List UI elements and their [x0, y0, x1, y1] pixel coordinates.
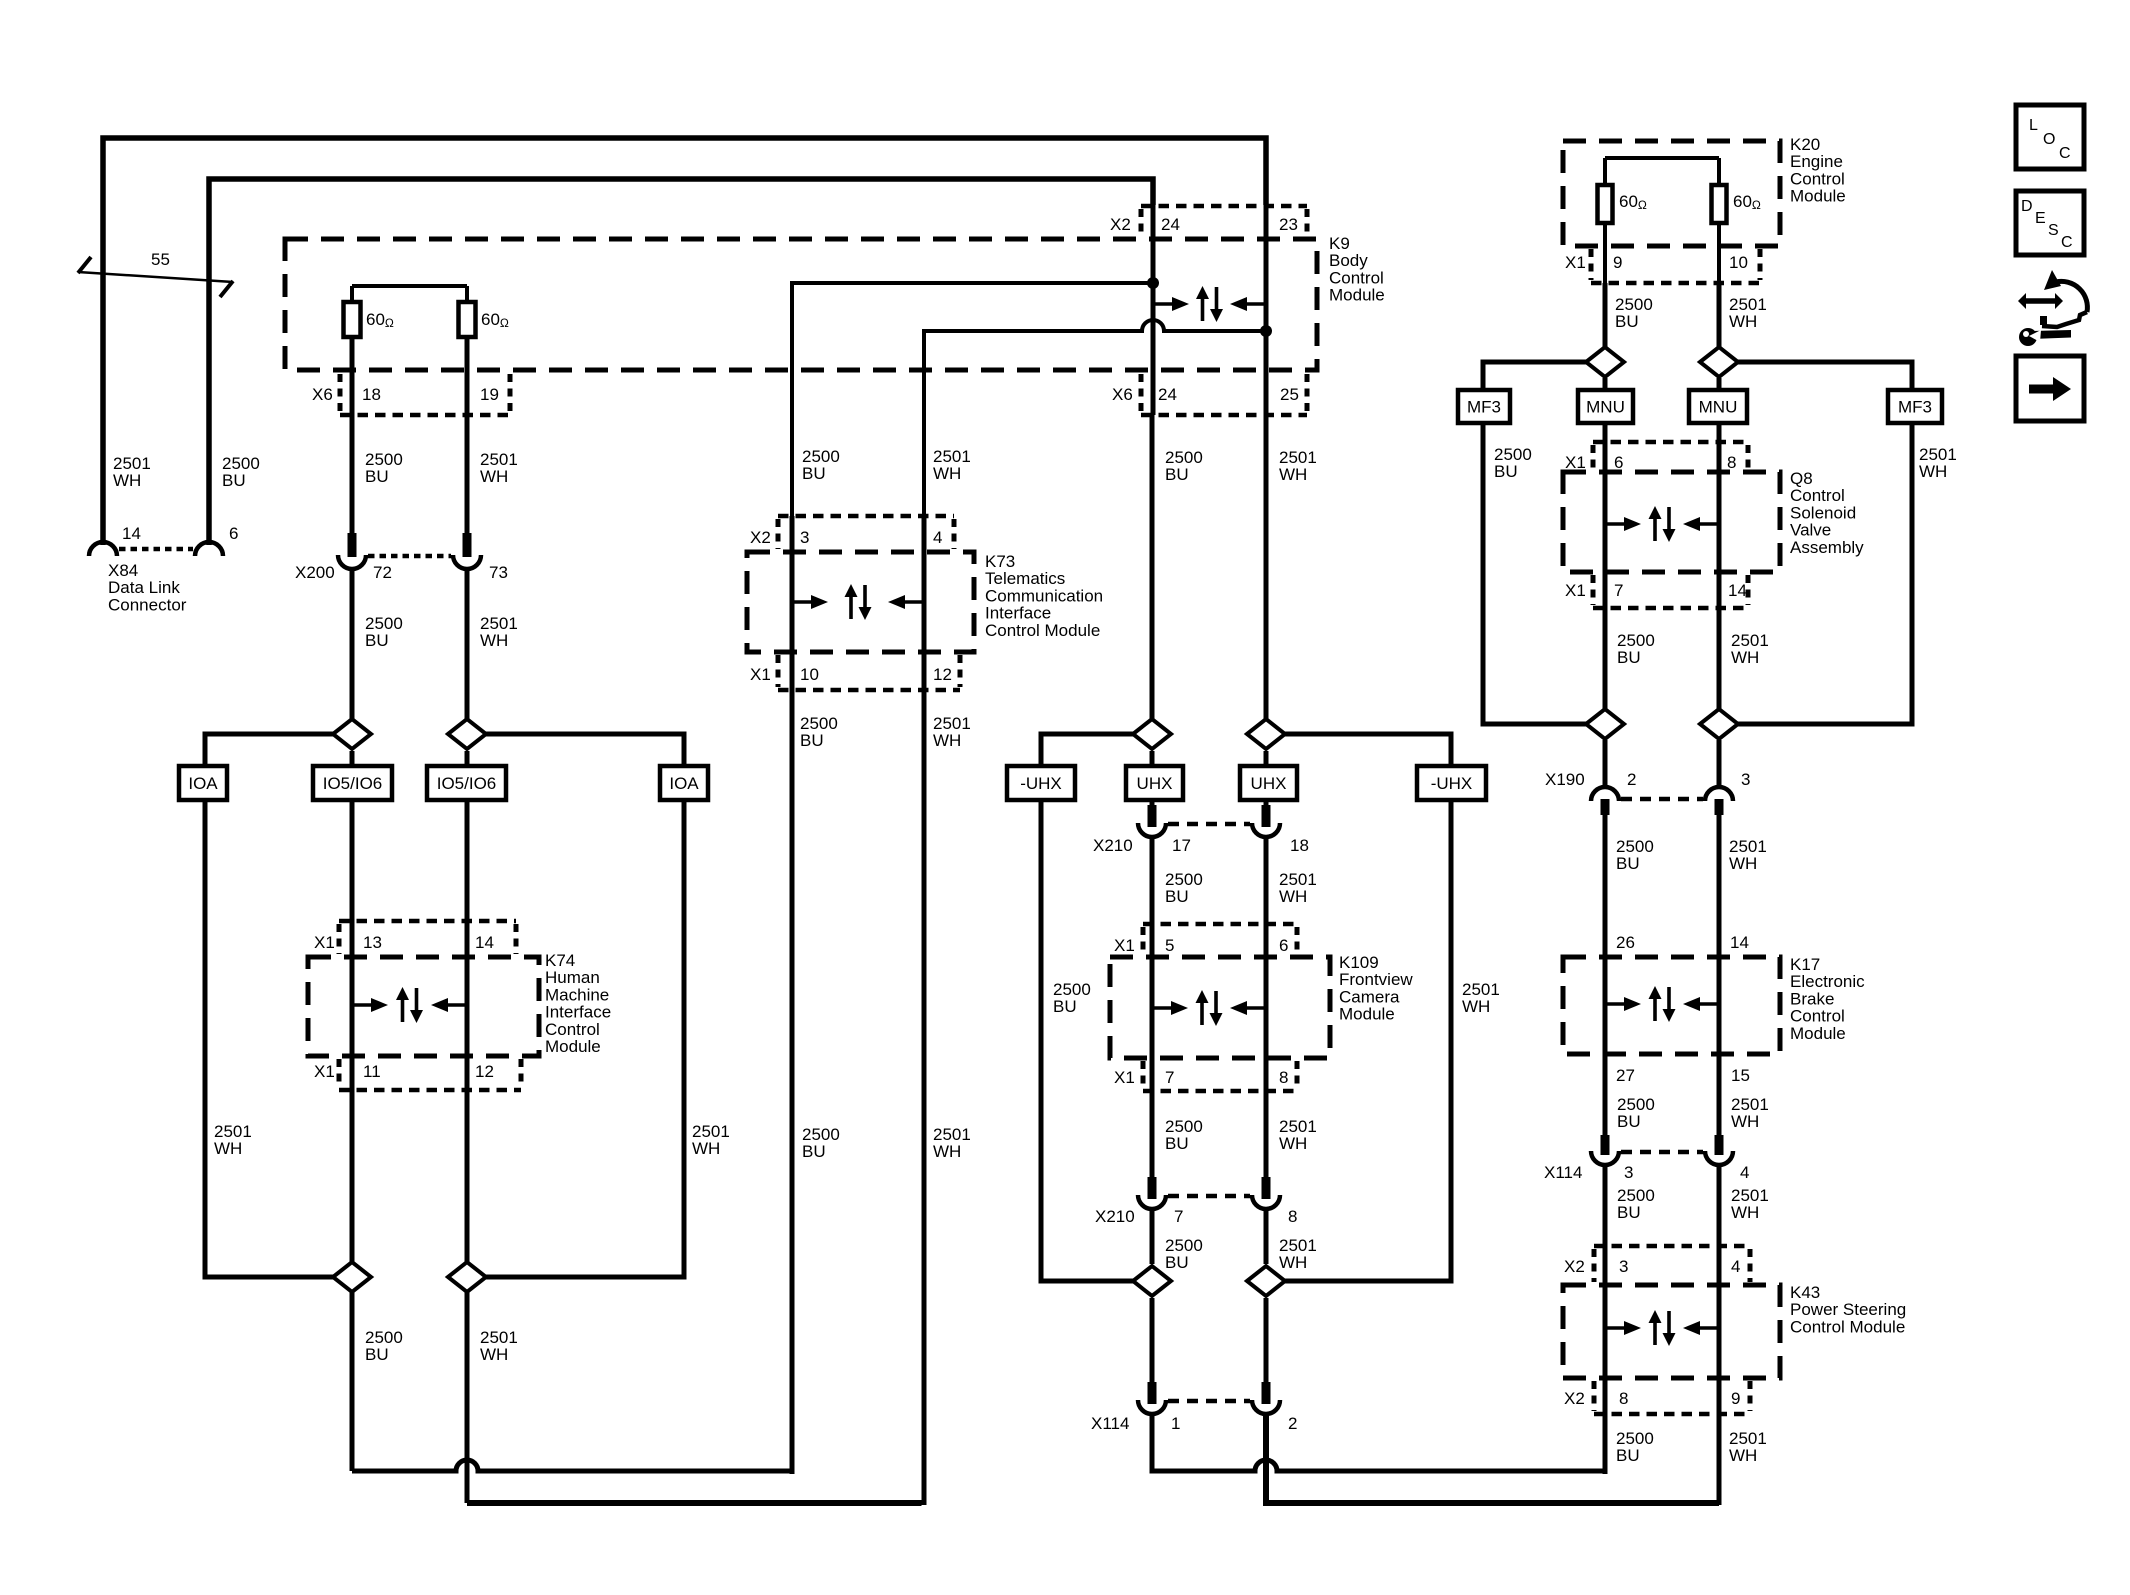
wire X114-4 to K43 X2-4: [1717, 1167, 1722, 1285]
transceiver symbol Q8: [1605, 522, 1625, 526]
connector pin box K74 X1 bottom: [339, 1088, 521, 1093]
option box IO5/IO6 left: [313, 766, 392, 800]
svg-text:Control: Control: [545, 1020, 600, 1039]
wire Q8 X1-7 to lower diamond: [1603, 473, 1608, 709]
svg-text:Interface: Interface: [985, 604, 1051, 623]
svg-text:Module: Module: [1790, 187, 1846, 206]
wire node link K9 CAN low to K73 X2-4 (hop over BU wire): [924, 320, 1266, 516]
connector X190 pin 3: [1705, 787, 1733, 801]
connector pin box K109 X1 top: [1143, 922, 1297, 927]
svg-text:2: 2: [1288, 1414, 1297, 1433]
wire 2500 BU K20 X1-9 to diamond: [1603, 283, 1608, 347]
svg-text:WH: WH: [1731, 1203, 1759, 1222]
svg-text:WH: WH: [1279, 887, 1307, 906]
wire resistor legs K20 to X1 box: [1603, 223, 1607, 283]
wire UHX left to X210-17: [1150, 751, 1155, 805]
module K109 Frontview Camera Module box: [1110, 957, 1330, 1058]
module K20 Engine Control Module box: [1563, 141, 1780, 246]
connector X114 pin 4: [1715, 1135, 1724, 1155]
wire K9 resistor branch 2501 WH X6-19 down to X200 pin 73: [465, 337, 470, 533]
svg-text:2501: 2501: [1729, 837, 1767, 856]
svg-text:WH: WH: [480, 631, 508, 650]
wire X114-2 down and bottom trunk 2501 WH right segment: [1266, 1414, 1719, 1503]
wire MF3 right down to lower diamond row: [1738, 423, 1912, 724]
svg-text:O: O: [2043, 131, 2055, 148]
splice diamond WH left: [448, 719, 486, 749]
svg-text:WH: WH: [1919, 462, 1947, 481]
svg-text:K20: K20: [1790, 135, 1820, 154]
svg-text:Solenoid: Solenoid: [1790, 503, 1856, 522]
svg-text:WH: WH: [933, 731, 961, 750]
splice diamond BU bottom left: [333, 1262, 371, 1292]
resistor 60 ohm K20 left: [1598, 185, 1613, 223]
connector pin box K73 X1: [778, 688, 960, 693]
svg-text:14: 14: [475, 933, 494, 952]
svg-text:BU: BU: [365, 1345, 389, 1364]
svg-text:X200: X200: [295, 563, 335, 582]
wire -UHX right down to bottom diamond row: [1285, 800, 1451, 1281]
svg-text:7: 7: [1165, 1068, 1174, 1087]
svg-text:X1: X1: [1114, 936, 1135, 955]
svg-text:WH: WH: [1731, 648, 1759, 667]
svg-text:MNU: MNU: [1699, 398, 1738, 417]
svg-text:L: L: [2029, 117, 2038, 134]
svg-text:7: 7: [1174, 1207, 1183, 1226]
connector pin box K73 X2: [778, 514, 954, 519]
svg-text:2501: 2501: [113, 454, 151, 473]
wire 2501 WH K73 X1-12 down to bottom trunk: [922, 516, 927, 1505]
svg-text:3: 3: [800, 528, 809, 547]
svg-text:2501: 2501: [1462, 980, 1500, 999]
wire branch to IOA right: [485, 734, 684, 766]
svg-text:7: 7: [1614, 581, 1623, 600]
svg-text:2501: 2501: [214, 1122, 252, 1141]
svg-text:WH: WH: [933, 464, 961, 483]
svg-text:2501: 2501: [1279, 448, 1317, 467]
splice diamond BU mid: [1133, 719, 1171, 749]
connector pin box K9 X2: [1141, 204, 1307, 209]
svg-text:Module: Module: [1329, 286, 1385, 305]
svg-text:WH: WH: [1729, 1446, 1757, 1465]
svg-text:6: 6: [1279, 936, 1288, 955]
wire K17 pin 15 to X114 pin 4: [1717, 1054, 1722, 1135]
wire lower diamond to X190 pin 2: [1603, 740, 1608, 788]
svg-text:Control: Control: [1790, 1007, 1845, 1026]
transceiver symbol K74: [352, 1003, 372, 1007]
svg-text:Telematics: Telematics: [985, 569, 1065, 588]
wire 2501 WH K20 X1-10 to diamond: [1717, 283, 1722, 347]
svg-text:60Ω: 60Ω: [366, 310, 394, 330]
svg-text:WH: WH: [1729, 312, 1757, 331]
wire X114-3 to K43 X2-3: [1603, 1167, 1608, 1285]
svg-text:BU: BU: [1617, 648, 1641, 667]
svg-text:2501: 2501: [1731, 1186, 1769, 1205]
svg-text:8: 8: [1619, 1389, 1628, 1408]
wire Q8 X1-14 to lower diamond: [1717, 473, 1722, 709]
svg-text:X210: X210: [1095, 1207, 1135, 1226]
svg-text:1: 1: [1171, 1414, 1180, 1433]
svg-text:2500: 2500: [1165, 1236, 1203, 1255]
junction dot K9 CAN high: [1147, 277, 1159, 289]
connector pin box K9 X6 left: [340, 413, 510, 418]
svg-text:2501: 2501: [1729, 1429, 1767, 1448]
transceiver symbol K43: [1605, 1326, 1625, 1330]
connector X210 dashed separation bottom: [1168, 1194, 1250, 1199]
svg-text:Module: Module: [1790, 1024, 1846, 1043]
splice diamond WH bottom mid: [1247, 1266, 1285, 1296]
svg-text:2500: 2500: [1165, 1117, 1203, 1136]
wire branch to IOA left: [205, 734, 334, 766]
svg-text:WH: WH: [480, 1345, 508, 1364]
svg-text:WH: WH: [1279, 465, 1307, 484]
module K74 Human Machine Interface Control Module box: [308, 957, 539, 1056]
svg-text:23: 23: [1279, 215, 1298, 234]
svg-text:K73: K73: [985, 552, 1015, 571]
option box MNU right: [1689, 390, 1747, 423]
svg-text:4: 4: [933, 528, 942, 547]
wire MNU right to Q8 X1-8: [1717, 378, 1722, 473]
svg-text:K43: K43: [1790, 1283, 1820, 1302]
svg-text:Control Module: Control Module: [1790, 1317, 1905, 1336]
circuit 55 annotation line: [78, 272, 233, 282]
wire bottom trunk 2500 BU left segment (hop over WH): [352, 1460, 790, 1471]
splice diamond WH bottom left: [448, 1262, 486, 1292]
connector X210 pin 7: [1148, 1177, 1157, 1199]
splice diamond BU bottom mid: [1133, 1266, 1171, 1296]
svg-text:Human: Human: [545, 968, 600, 987]
svg-text:2500: 2500: [1165, 870, 1203, 889]
connector X210 pin 17: [1148, 805, 1157, 827]
connector X200 pin 73 (bar and cup): [463, 533, 472, 557]
svg-text:60Ω: 60Ω: [1619, 192, 1647, 212]
connector pin box Q8 X1 top: [1593, 440, 1748, 445]
wire K43 X2-8 down to bottom trunk: [1603, 1285, 1608, 1474]
svg-text:14: 14: [1730, 933, 1749, 952]
svg-text:2500: 2500: [1617, 1095, 1655, 1114]
svg-text:Power Steering: Power Steering: [1790, 1300, 1906, 1319]
connector pin box K20 X1: [1591, 281, 1760, 286]
svg-text:9: 9: [1731, 1389, 1740, 1408]
svg-text:2500: 2500: [1053, 980, 1091, 999]
legend box LOC: [2016, 105, 2084, 169]
svg-text:3: 3: [1741, 770, 1750, 789]
svg-text:6: 6: [229, 524, 238, 543]
svg-text:C: C: [2059, 145, 2071, 162]
wire diamond to X114 pin 1: [1150, 1298, 1155, 1382]
module K43 Power Steering Control Module box: [1563, 1285, 1780, 1378]
connector pin box K109 X1 bottom: [1143, 1089, 1297, 1094]
connector X210 dashed separation top: [1168, 822, 1250, 827]
svg-text:BU: BU: [365, 631, 389, 650]
connector X114 pin 2: [1262, 1382, 1271, 1404]
wire IOA right down to bottom diamond row: [485, 800, 684, 1277]
svg-text:X6: X6: [312, 385, 333, 404]
svg-text:2501: 2501: [933, 714, 971, 733]
svg-text:19: 19: [480, 385, 499, 404]
svg-text:17: 17: [1172, 836, 1191, 855]
wire 2501 WH X200-73 to diamond: [465, 569, 470, 719]
svg-text:26: 26: [1616, 933, 1635, 952]
svg-text:D: D: [2021, 198, 2033, 215]
svg-text:2500: 2500: [1616, 1429, 1654, 1448]
svg-text:BU: BU: [1165, 465, 1189, 484]
svg-text:11: 11: [363, 1062, 381, 1081]
svg-text:X210: X210: [1093, 836, 1133, 855]
connector pin box Q8 X1 bottom: [1593, 606, 1748, 611]
option box -UHX right: [1417, 766, 1486, 800]
svg-text:2501: 2501: [933, 1125, 971, 1144]
resistor network K20: [1605, 156, 1719, 160]
svg-text:18: 18: [1290, 836, 1309, 855]
svg-text:BU: BU: [1616, 1446, 1640, 1465]
wire K9 resistor branch 2500 BU X6-18 down to X200 pin 72: [350, 337, 355, 533]
module K73 Telematics box: [747, 552, 974, 652]
svg-text:WH: WH: [113, 471, 141, 490]
svg-text:2500: 2500: [365, 1328, 403, 1347]
svg-text:WH: WH: [1731, 1112, 1759, 1131]
svg-text:Control: Control: [1790, 486, 1845, 505]
wire UHX right to X210-18: [1264, 751, 1269, 805]
svg-text:2501: 2501: [933, 447, 971, 466]
svg-text:BU: BU: [1165, 887, 1189, 906]
wire K43 X2-9 down to bottom trunk: [1717, 1285, 1722, 1505]
connector X190 pin 2: [1591, 787, 1619, 801]
svg-text:WH: WH: [1462, 997, 1490, 1016]
wire 2500 BU X210-7 to bottom diamond: [1150, 1211, 1155, 1264]
svg-text:K74: K74: [545, 951, 575, 970]
connector X200 dashed separation: [368, 554, 451, 559]
svg-text:24: 24: [1158, 385, 1177, 404]
svg-text:Machine: Machine: [545, 985, 609, 1004]
svg-text:X84: X84: [108, 561, 138, 580]
wire 2500 BU K9 X6-24 down to diamond: [1150, 415, 1155, 719]
connector pin box K43 X2 bottom: [1594, 1412, 1750, 1417]
svg-text:3: 3: [1624, 1163, 1633, 1182]
svg-text:2501: 2501: [1279, 1236, 1317, 1255]
transceiver symbol K9: [1153, 302, 1173, 306]
legend box next-page arrow: [2016, 356, 2084, 421]
connector pin box K43 X2 top: [1594, 1244, 1750, 1249]
svg-text:Frontview: Frontview: [1339, 970, 1413, 989]
svg-text:MNU: MNU: [1586, 398, 1625, 417]
svg-text:BU: BU: [1617, 1203, 1641, 1222]
svg-text:MF3: MF3: [1467, 398, 1501, 417]
wire X114-1 down and bottom trunk 2500 BU right segment (hop over WH): [1152, 1414, 1605, 1471]
svg-text:18: 18: [362, 385, 381, 404]
connector X114 pin 3: [1601, 1135, 1610, 1155]
option box -UHX left: [1007, 766, 1075, 800]
svg-text:BU: BU: [1165, 1253, 1189, 1272]
svg-text:8: 8: [1727, 453, 1736, 472]
svg-text:2501: 2501: [1731, 1095, 1769, 1114]
option box UHX left: [1126, 766, 1183, 800]
option box IOA left: [179, 766, 227, 800]
option box IOA right: [660, 766, 708, 800]
transceiver symbol K109: [1152, 1006, 1172, 1010]
svg-text:Module: Module: [545, 1037, 601, 1056]
wire bottom trunk 2501 WH left segment: [467, 1500, 922, 1506]
wire 2501 WH from X84 pin 14 to K9 X2-23 (top trunk): [103, 138, 1266, 545]
svg-text:X2: X2: [1110, 215, 1131, 234]
wire branch to MF3 right: [1738, 362, 1912, 390]
resistor 60 ohm K9 right: [459, 302, 476, 337]
svg-text:27: 27: [1616, 1066, 1635, 1085]
svg-text:IO5/IO6: IO5/IO6: [323, 774, 383, 793]
svg-text:2500: 2500: [1615, 295, 1653, 314]
connector pin box K74 X1 top: [339, 919, 516, 924]
svg-text:K17: K17: [1790, 955, 1820, 974]
svg-text:Assembly: Assembly: [1790, 538, 1864, 557]
svg-text:BU: BU: [1616, 854, 1640, 873]
svg-text:12: 12: [933, 665, 952, 684]
svg-text:WH: WH: [1279, 1134, 1307, 1153]
wire lower diamond to X190 pin 3: [1717, 740, 1722, 788]
svg-text:MF3: MF3: [1898, 398, 1932, 417]
svg-text:5: 5: [1165, 936, 1174, 955]
wire 2501 WH K9 X6-25 down to diamond: [1264, 415, 1269, 719]
svg-text:WH: WH: [1729, 854, 1757, 873]
svg-text:Engine: Engine: [1790, 152, 1843, 171]
svg-text:14: 14: [122, 524, 141, 543]
svg-text:-UHX: -UHX: [1431, 774, 1473, 793]
svg-text:K109: K109: [1339, 953, 1379, 972]
svg-text:4: 4: [1731, 1257, 1740, 1276]
legend icon vehicle data arrow and wrench: [2025, 298, 2056, 304]
splice diamond BU right top: [1586, 347, 1624, 377]
option box MF3 right: [1888, 390, 1942, 423]
svg-text:2500: 2500: [1165, 448, 1203, 467]
module Q8 Control Solenoid Valve Assembly box: [1563, 472, 1780, 572]
svg-text:2501: 2501: [1279, 870, 1317, 889]
svg-text:2501: 2501: [480, 614, 518, 633]
svg-text:X1: X1: [750, 665, 771, 684]
transceiver symbol K17: [1605, 1002, 1625, 1006]
wire 2500 BU X210-17 through K109 to X210-7: [1150, 837, 1155, 1177]
svg-text:Camera: Camera: [1339, 987, 1400, 1006]
svg-text:X1: X1: [1565, 253, 1586, 272]
svg-text:24: 24: [1161, 215, 1180, 234]
svg-text:X1: X1: [1114, 1068, 1135, 1087]
wire 2500 BU X190-2 to K17 pin 26: [1603, 815, 1608, 957]
wire MF3 left down to lower diamond row: [1483, 423, 1586, 724]
splice diamond WH right top: [1700, 347, 1738, 377]
svg-text:Valve: Valve: [1790, 521, 1831, 540]
connector pin box K9 X6 right: [1141, 413, 1307, 418]
wire 2500 BU K73 X1-10 down to bottom trunk: [790, 516, 795, 1474]
splice diamond BU left: [333, 719, 371, 749]
connector X114 pin 1: [1148, 1382, 1157, 1404]
svg-text:WH: WH: [1279, 1253, 1307, 1272]
svg-text:Module: Module: [1339, 1005, 1395, 1024]
connector X84 dashed separation: [119, 547, 193, 552]
svg-text:55: 55: [151, 250, 170, 269]
svg-text:S: S: [2048, 222, 2059, 239]
svg-text:WH: WH: [933, 1142, 961, 1161]
svg-text:K9: K9: [1329, 234, 1350, 253]
wire K17 pin 27 to X114 pin 3: [1603, 1054, 1608, 1135]
svg-text:2500: 2500: [802, 1125, 840, 1144]
junction dot K9 CAN low: [1260, 325, 1272, 337]
svg-text:BU: BU: [365, 467, 389, 486]
option box UHX right: [1240, 766, 1297, 800]
svg-text:X1: X1: [1565, 453, 1586, 472]
splice diamond BU right lower: [1586, 709, 1624, 739]
svg-text:13: 13: [363, 933, 382, 952]
svg-text:X6: X6: [1112, 385, 1133, 404]
svg-text:9: 9: [1613, 253, 1622, 272]
svg-text:14: 14: [1728, 581, 1747, 600]
svg-text:BU: BU: [802, 464, 826, 483]
svg-text:2501: 2501: [1731, 631, 1769, 650]
svg-text:Data Link: Data Link: [108, 578, 180, 597]
svg-text:Brake: Brake: [1790, 989, 1834, 1008]
wire IO5/IO6 right through K74 down to bottom trunk: [465, 751, 470, 1503]
transceiver symbol K73: [792, 600, 812, 604]
wire K9 X2-24 through module to X6-24: [1151, 205, 1156, 415]
wire branch to -UHX right: [1285, 734, 1451, 766]
svg-text:2500: 2500: [1617, 1186, 1655, 1205]
svg-text:BU: BU: [1615, 312, 1639, 331]
svg-text:Connector: Connector: [108, 595, 187, 614]
svg-text:2501: 2501: [1729, 295, 1767, 314]
connector X210 pin 18: [1262, 805, 1271, 827]
svg-text:4: 4: [1740, 1163, 1749, 1182]
svg-text:WH: WH: [692, 1139, 720, 1158]
svg-text:UHX: UHX: [1137, 774, 1173, 793]
svg-text:2501: 2501: [692, 1122, 730, 1141]
wire MNU left to Q8 X1-6: [1603, 378, 1608, 473]
svg-text:X1: X1: [314, 1062, 335, 1081]
svg-text:X1: X1: [1565, 581, 1586, 600]
connector X114 dashed separation 3 4: [1621, 1150, 1703, 1155]
svg-text:2501: 2501: [480, 450, 518, 469]
svg-text:E: E: [2035, 210, 2046, 227]
svg-text:BU: BU: [222, 471, 246, 490]
svg-text:3: 3: [1619, 1257, 1628, 1276]
svg-text:IOA: IOA: [188, 774, 218, 793]
wire 2501 WH X190-3 to K17 pin 14: [1717, 815, 1722, 957]
wire resistor legs K9 to X6 pin box: [350, 286, 354, 302]
svg-text:2500: 2500: [802, 447, 840, 466]
svg-text:60Ω: 60Ω: [481, 310, 509, 330]
svg-text:2500: 2500: [222, 454, 260, 473]
svg-text:X2: X2: [1564, 1257, 1585, 1276]
svg-text:12: 12: [475, 1062, 494, 1081]
svg-text:X190: X190: [1545, 770, 1585, 789]
wire node link K9 CAN high to K73 X2-3: [792, 283, 1153, 516]
svg-text:10: 10: [1729, 253, 1748, 272]
svg-text:2500: 2500: [365, 614, 403, 633]
svg-text:X2: X2: [1564, 1389, 1585, 1408]
svg-text:BU: BU: [1053, 997, 1077, 1016]
wire branch to -UHX left: [1041, 734, 1134, 766]
wire 2501 WH X210-18 through K109 to X210-8: [1264, 837, 1269, 1177]
svg-text:2: 2: [1627, 770, 1636, 789]
svg-text:X114: X114: [1544, 1163, 1582, 1182]
svg-text:2500: 2500: [1494, 445, 1532, 464]
svg-text:8: 8: [1288, 1207, 1297, 1226]
svg-text:72: 72: [373, 563, 392, 582]
svg-text:Q8: Q8: [1790, 469, 1813, 488]
resistor 60 ohm K9 left: [350, 286, 354, 302]
svg-text:Interface: Interface: [545, 1003, 611, 1022]
connector X200 pin 72 (bar and cup): [348, 533, 357, 557]
svg-text:10: 10: [800, 665, 819, 684]
svg-text:15: 15: [1731, 1066, 1750, 1085]
svg-text:Body: Body: [1329, 251, 1368, 270]
svg-text:2500: 2500: [800, 714, 838, 733]
module K9 Body Control Module box: [285, 239, 1317, 370]
